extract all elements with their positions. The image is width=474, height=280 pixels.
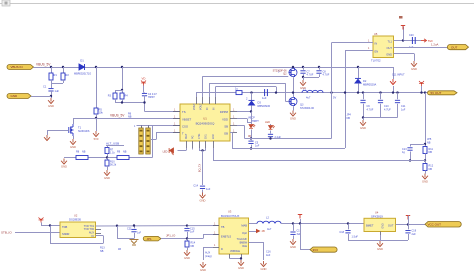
wire Q1 gate <box>47 130 69 132</box>
svg-text:BQ24090DGQ: BQ24090DGQ <box>196 122 216 126</box>
ground under C17 <box>290 239 296 245</box>
junction at 96,67 <box>95 66 97 68</box>
stub pin CHG <box>192 148 194 150</box>
junction at 63,67 <box>62 66 64 68</box>
resistor R9 inline <box>117 156 129 160</box>
svg-text:HRPT: HRPT <box>252 120 259 123</box>
svg-text:IN: IN <box>213 107 216 110</box>
ground under D pin <box>200 262 206 268</box>
junction at 425,144 <box>424 143 426 145</box>
svg-text:LED: LED <box>265 120 270 124</box>
junction at 410,160.5 <box>409 159 411 161</box>
capacitor C8 4.7uF <box>319 67 321 70</box>
wire R10 down <box>107 166 109 170</box>
wire U4 out <box>396 224 426 226</box>
svg-text:4.7UF: 4.7UF <box>307 74 314 77</box>
power symbol at U2 <box>39 218 44 223</box>
wire U3 switch out <box>249 223 258 225</box>
wire Y1 row y138.5 <box>245 138 332 140</box>
svg-text:NB: NB <box>427 141 431 144</box>
U1 left pin stubs <box>173 111 180 113</box>
junction at 122,102.5 <box>121 101 123 103</box>
svg-text:TDB: TDB <box>62 225 67 229</box>
power T at U4 out <box>406 216 410 220</box>
power T 5V0 top <box>401 26 405 30</box>
svg-text:GND: GND <box>377 247 383 251</box>
net port arrow right of U3 <box>249 231 257 233</box>
ground under RLE <box>261 261 267 267</box>
svg-text:C18: C18 <box>339 231 344 234</box>
ground arrow under Q3 <box>290 111 296 117</box>
junction at 303,67 <box>302 66 304 68</box>
wire L2 to caps <box>281 223 364 225</box>
svg-text:1uF: 1uF <box>55 89 60 93</box>
svg-text:OUT: OUT <box>388 224 394 228</box>
wire caps join rail <box>303 77 319 79</box>
ground under gate resistor <box>44 135 50 141</box>
ground under output caps <box>363 118 365 121</box>
svg-text:1uF: 1uF <box>262 96 267 100</box>
svg-text:VBUS_5V: VBUS_5V <box>36 62 51 66</box>
svg-text:CSO: CSO <box>182 124 189 128</box>
wire x152.5 down to resistor row <box>152 126 154 158</box>
wire cap down to corner <box>144 96 146 112</box>
wire R12 down <box>425 171 427 174</box>
wire resistor bottoms bus <box>115 99 117 103</box>
svg-text:TLV702: TLV702 <box>371 58 381 62</box>
junction at 300,223.5 <box>299 222 301 224</box>
svg-text:GND: GND <box>70 145 76 149</box>
wire U5 GND pin <box>394 53 415 55</box>
svg-text:4u7: 4u7 <box>267 227 272 231</box>
svg-text:Oprt: Oprt <box>242 231 247 235</box>
junction at 403,40.5 <box>402 39 404 41</box>
svg-text:2.2uF: 2.2uF <box>275 136 282 139</box>
inductor L1 4.7uH <box>302 90 323 92</box>
junction at 107,157.5 <box>106 156 108 158</box>
svg-text:U5: U5 <box>374 32 378 36</box>
junction at 408,224.5 <box>407 223 409 225</box>
U4 bottom pin <box>380 232 382 236</box>
svg-text:5V OUT: 5V OUT <box>431 91 442 95</box>
jumper JP1 inline <box>143 236 161 241</box>
svg-text:RB520S30: RB520S30 <box>258 104 271 108</box>
capacitor C10 on output <box>379 91 381 93</box>
resistor R14 at x187 <box>187 239 189 242</box>
wire U1 pin VOUT up to SW bus <box>196 93 198 97</box>
svg-text:1uF: 1uF <box>401 108 406 111</box>
resistor R4 <box>122 90 124 93</box>
svg-text:GND: GND <box>48 104 54 108</box>
svg-text:VDD: VDD <box>222 117 228 121</box>
wire R5 to row <box>96 114 98 118</box>
junction at 358,67 <box>357 66 359 68</box>
U1 bottom pin stubs <box>186 141 188 148</box>
svg-text:4B: 4B <box>262 229 265 233</box>
svg-text:GND: GND <box>200 199 206 203</box>
svg-text:(mag): (mag) <box>205 255 212 258</box>
capacitor C9 on output <box>362 91 364 93</box>
U3 pin stubs left <box>213 225 219 227</box>
svg-text:JP1_IO: JP1_IO <box>166 234 176 238</box>
svg-text:4.7UF: 4.7UF <box>384 108 391 111</box>
wire into IC pin TS <box>145 111 181 113</box>
ground symbol under C1 <box>48 98 54 104</box>
svg-text:RLE: RLE <box>235 250 240 253</box>
svg-text:4.7UF: 4.7UF <box>367 108 374 111</box>
svg-text:GND: GND <box>411 67 417 71</box>
resistor R2 divider <box>63 67 65 73</box>
svg-text:ST2300F-06: ST2300F-06 <box>300 107 315 110</box>
wire PG CHG pins merge <box>199 148 201 151</box>
capacitor C18 1.5uF <box>348 224 350 230</box>
transistor Q3 ST2300 bottom <box>289 97 298 106</box>
capacitor C22 at x134 <box>134 226 136 229</box>
junction at 251.5,92.6 <box>250 91 252 93</box>
transistor Q1 SI2301 <box>69 124 74 136</box>
svg-text:SB: SB <box>224 124 228 128</box>
wire up to power T <box>403 27 405 41</box>
junction at 348,223.5 <box>347 222 349 224</box>
wire VBUS_5V row y118 to IC <box>73 118 180 120</box>
svg-text:OUT: OUT <box>387 46 393 50</box>
junction at 117,225.7 <box>116 225 118 227</box>
svg-text:EN2: EN2 <box>212 134 215 139</box>
svg-text:VOUT: VOUT <box>193 103 196 110</box>
junction at 270.5,138.5 <box>269 137 271 139</box>
svg-text:NB: NB <box>429 151 433 154</box>
svg-text:GND: GND <box>422 180 428 184</box>
junction at 276,92.6 <box>275 91 277 93</box>
ground at left end of row <box>61 159 67 165</box>
ground under R14 <box>184 250 190 256</box>
diode D2 MBR0520 vertical <box>358 67 360 78</box>
svg-text:C1: C1 <box>43 85 47 89</box>
svg-text:D1: D1 <box>80 59 84 63</box>
junction at 293,67 <box>292 66 294 68</box>
capacitor C19 out <box>408 225 410 230</box>
wire 96 down <box>96 67 98 108</box>
wire down to connector J4 <box>300 224 302 250</box>
svg-text:5V: 5V <box>333 95 336 99</box>
wire STB_IO to U2 <box>15 232 60 234</box>
junction at 303,77 <box>302 76 304 78</box>
svg-text:NB: NB <box>347 117 351 120</box>
net arrow port 5V0 <box>421 39 427 42</box>
ground rail bottom right <box>348 240 408 242</box>
wire divider join <box>51 83 63 85</box>
junction at 202.5,150.5 <box>201 149 203 151</box>
wire T split <box>115 90 122 92</box>
ground under U5 <box>411 61 417 67</box>
svg-text:56.2k: 56.2k <box>110 164 117 167</box>
svg-text:LED: LED <box>163 151 168 154</box>
svg-text:NB: NB <box>100 250 104 253</box>
capacitor C17 boost out <box>293 224 295 231</box>
svg-text:T: T <box>182 131 184 135</box>
wire IC pin3 row y125.5 <box>137 125 181 127</box>
wire U2 loop left <box>50 226 52 244</box>
wire U5 OUT to connector <box>394 47 449 49</box>
wire 122 down <box>122 67 124 90</box>
wire C1 to gnd node <box>51 91 53 98</box>
resistor R7 1.1k <box>107 146 109 148</box>
wire output caps rail <box>363 117 398 119</box>
connector J6 top right <box>447 45 468 50</box>
wire D3 anode to pin DPPM <box>251 106 253 112</box>
svg-text:TL1: TL1 <box>388 39 393 43</box>
svg-text:VD: VD <box>142 76 146 80</box>
svg-text:10k: 10k <box>99 111 104 115</box>
U1 top pin stubs <box>196 97 198 104</box>
ground arrow under caps <box>300 80 306 86</box>
svg-text:C11 INPUT: C11 INPUT <box>392 74 405 77</box>
IC U3 boost converter <box>219 218 249 254</box>
wire feedback vertical x425 <box>425 93 427 147</box>
svg-text:TB: TB <box>221 225 225 229</box>
svg-text:1uF: 1uF <box>206 188 211 191</box>
IC U4 LDO <box>364 218 396 231</box>
wire LDO IN vertical x331.5 <box>331 43 333 139</box>
svg-text:SPX3819: SPX3819 <box>371 214 383 218</box>
svg-text:GND: GND <box>360 126 366 130</box>
LED LED3 power good <box>169 148 173 155</box>
svg-text:1.5uF: 1.5uF <box>352 236 359 239</box>
svg-text:VBUS IN: VBUS IN <box>11 65 23 69</box>
junction at 363,117.5 <box>362 116 364 118</box>
junction at 122,67 <box>121 66 123 68</box>
svg-text:GND: GND <box>184 256 190 260</box>
junction at 134,225.5 <box>133 224 135 226</box>
stub header2 top <box>148 126 150 129</box>
wire corner up into EN pin <box>203 235 205 239</box>
power arrow VIN on wire <box>390 79 396 85</box>
svg-text:MAB: MAB <box>241 224 247 228</box>
svg-text:4uF: 4uF <box>266 254 271 257</box>
ground bar under C22 <box>130 240 139 246</box>
svg-text:4.7UF: 4.7UF <box>323 74 330 77</box>
wire U2 out row y226 <box>96 225 220 228</box>
svg-text:ENBTLS: ENBTLS <box>221 234 231 238</box>
svg-text:VOUT: VOUT <box>200 103 203 110</box>
junction at 50,225.5 <box>49 224 51 226</box>
svg-text:VBUS_5V: VBUS_5V <box>110 114 125 118</box>
svg-text:IN: IN <box>375 42 378 46</box>
resistor R12 feedback bottom <box>425 161 427 164</box>
svg-text:R1: R1 <box>54 73 58 77</box>
svg-text:GND: GND <box>382 223 385 229</box>
ground under C14 <box>200 193 206 199</box>
capacitor C15 at x187 <box>187 226 189 228</box>
long resistor row y157.5 <box>64 157 153 159</box>
wire RLE pin down to gnd <box>249 242 264 244</box>
connector J1 VBUS input <box>7 65 34 70</box>
junction at 425,160.5 <box>424 159 426 161</box>
junction at 393,92.6 <box>392 91 394 93</box>
wire JP1 to corner <box>161 238 203 240</box>
resistor R10 56.2k <box>107 158 109 161</box>
wire U1 bottom pin5 to bus <box>213 148 215 161</box>
svg-text:GND: GND <box>290 245 296 249</box>
wire ISET pin to LED3 <box>186 148 188 151</box>
junction at 425,92.6 <box>424 91 426 93</box>
transistor Q2 ST2300 top <box>289 68 298 77</box>
svg-text:BMET: BMET <box>366 224 374 228</box>
pin header JP2 column 1 <box>139 128 143 154</box>
junction at 331.5,92.6 <box>330 91 332 93</box>
svg-text:SI2301DS: SI2301DS <box>78 130 90 133</box>
svg-text:1uF: 1uF <box>190 231 195 234</box>
wire Q2 to Q3 <box>293 77 295 97</box>
resistor R5 <box>94 108 98 114</box>
svg-text:TS: TS <box>182 110 186 114</box>
IC U5 TLV702 <box>373 36 394 58</box>
svg-text:NB: NB <box>128 116 132 119</box>
junction at 51,67 <box>50 66 52 68</box>
svg-text:STB_IO: STB_IO <box>1 231 12 235</box>
svg-text:MBR0520LT1G: MBR0520LT1G <box>74 73 91 76</box>
svg-text:CHG: CHG <box>198 134 201 139</box>
junction at 319,67 <box>318 66 320 68</box>
capacitor C11 on output <box>396 91 398 93</box>
svg-text:GND: GND <box>11 94 19 98</box>
capacitor C2 0.47uF <box>142 93 147 95</box>
svg-text:ISET: ISET <box>185 133 188 139</box>
svg-text:GND: GND <box>238 266 244 270</box>
svg-text:GND: GND <box>61 165 67 169</box>
wire Q3 down <box>293 106 295 110</box>
junction at 421.5,92.6 <box>420 91 422 93</box>
svg-text:BU33UV7NUX: BU33UV7NUX <box>221 214 239 218</box>
svg-text:HRST: HRST <box>148 96 155 99</box>
ground under U3 <box>238 260 244 266</box>
wire long bus y160.5 <box>213 160 425 162</box>
connector J3 5V output <box>428 91 458 95</box>
junction at 144.5,102.5 <box>143 101 145 103</box>
junction at 51,96 <box>50 95 52 97</box>
connector J4 <box>310 247 337 252</box>
svg-text:VBSET: VBSET <box>182 117 191 121</box>
IC U1 BQ24075 charger <box>180 104 230 141</box>
U5 left pins <box>332 42 374 44</box>
wire GB pin row to y148.5 <box>230 132 232 134</box>
IC U2 supervisor <box>60 222 96 238</box>
wire corner x73 down to Q1 <box>73 119 75 125</box>
connector J5 output <box>425 222 461 228</box>
svg-text:D3: D3 <box>258 101 262 105</box>
U2 right pin stubs <box>96 229 102 231</box>
svg-text:GND: GND <box>290 117 296 121</box>
capacitor C12 branch <box>410 144 412 147</box>
capacitor C3 inline on bus <box>265 89 268 96</box>
LED LED1 <box>251 112 253 125</box>
wire LDO EN vertical x345 <box>345 50 347 148</box>
svg-text:OUT: OUT <box>451 45 458 49</box>
wire nested net 1 <box>202 76 204 97</box>
svg-text:MBR0520A: MBR0520A <box>363 83 377 87</box>
pin header JP2 column 2 <box>146 128 150 154</box>
capacitor C14 <box>200 186 205 188</box>
wire VDD pin jog <box>237 118 247 120</box>
wire D pin to gnd <box>203 247 213 249</box>
power arrow 5V below R5 <box>93 131 99 137</box>
junction at 293,92.6 <box>292 91 294 93</box>
svg-text:D: D <box>221 247 223 251</box>
ground under R12 <box>422 174 428 180</box>
capacitor C20 inline <box>412 37 415 44</box>
diode D1 MBR0520 <box>79 64 85 70</box>
junction at 251,111.5 <box>250 110 252 112</box>
svg-text:SNDR: SNDR <box>62 232 69 236</box>
svg-text:R2: R2 <box>66 73 70 77</box>
small red marker near top <box>399 16 403 19</box>
svg-text:1uF: 1uF <box>137 232 142 235</box>
svg-text:VCC OUT: VCC OUT <box>428 222 442 226</box>
svg-text:RLE: RLE <box>242 245 247 248</box>
junction at 187,238.5 <box>186 237 188 239</box>
wire SB pin corner to Y1 <box>237 125 245 127</box>
fuse F1 on SW bus <box>236 91 242 95</box>
wire R7 to row <box>107 154 109 158</box>
svg-text:EN: EN <box>375 50 379 54</box>
junction at 293,223.5 <box>292 222 294 224</box>
svg-text:DPPM: DPPM <box>220 110 229 114</box>
wire gate down <box>47 130 49 135</box>
browser chrome top line <box>0 3 474 5</box>
junction at 122,90 <box>121 89 123 91</box>
svg-text:4B: 4B <box>118 248 121 251</box>
svg-text:GB: GB <box>224 131 228 135</box>
svg-text:GND: GND <box>386 52 392 56</box>
wire nested net 3 <box>215 87 217 97</box>
wire C14 to gnd <box>202 190 204 193</box>
svg-text:ALT_USB: ALT_USB <box>106 141 119 145</box>
wire J1 to node <box>34 67 52 69</box>
svg-text:C20: C20 <box>409 34 414 37</box>
svg-text:C22: C22 <box>127 228 132 231</box>
svg-text:BQ_TX: BQ_TX <box>198 163 202 172</box>
ground under Q1 <box>70 139 76 145</box>
wire stub below 96,118 <box>96 118 98 131</box>
svg-text:IC: IC <box>92 235 95 238</box>
wire nested net 2 <box>209 83 211 97</box>
power Y symbol above output <box>419 81 424 86</box>
wire IC pin4 row y132.5 <box>156 132 180 134</box>
resistor R1 divider top <box>51 67 53 73</box>
diode D3 RB520S30 vertical <box>251 93 253 100</box>
svg-text:PG: PG <box>192 135 195 139</box>
wire VBUS corner down at x393 <box>393 67 395 79</box>
junction at 358,92.6 <box>357 91 359 93</box>
wire x117 down and right <box>117 226 119 239</box>
wire Q1 source down <box>73 136 75 139</box>
connector J2 ground <box>7 94 31 99</box>
svg-text:NB: NB <box>82 151 86 154</box>
resistor R3 <box>113 93 117 99</box>
wire R11 to node <box>425 154 427 161</box>
wire VBUS bus y67 <box>51 67 393 69</box>
wire branch y144 <box>410 144 425 146</box>
ground under R10 <box>104 170 110 176</box>
svg-text:5V0: 5V0 <box>94 137 99 141</box>
junction at 251,138.5 <box>250 137 252 139</box>
wire VDD to cap <box>143 86 145 93</box>
inductor L2 4.7uH <box>257 221 281 223</box>
svg-text:1uF: 1uF <box>255 145 260 148</box>
svg-text:C14: C14 <box>193 184 198 187</box>
svg-text:BMBW: BMBW <box>240 241 248 244</box>
wire U5 pin1 out <box>394 40 422 42</box>
